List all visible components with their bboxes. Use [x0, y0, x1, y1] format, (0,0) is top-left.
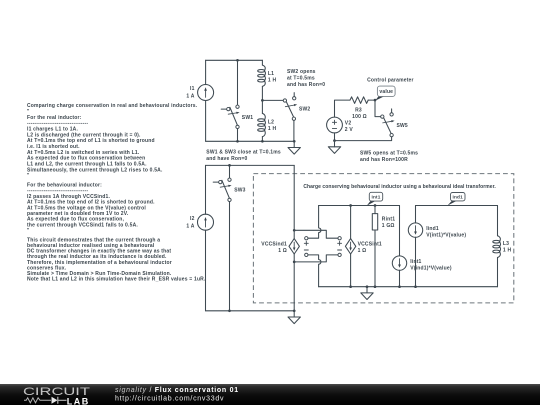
wire VCCSind1 top node to VCCSint1 + control [294, 230, 338, 238]
svg-text:SW2 opens: SW2 opens [287, 69, 316, 75]
svg-text:LAB: LAB [67, 396, 90, 405]
ground V2 [328, 141, 340, 154]
wire int1 net down to VCCSind1 + control (with hop) [308, 206, 321, 239]
resistor Rint1 [372, 206, 377, 287]
svg-text:ind1: ind1 [452, 194, 463, 199]
svg-text:SW3: SW3 [234, 188, 245, 194]
svg-text:I1: I1 [190, 86, 195, 92]
ground I2 circuit [288, 311, 300, 324]
junction rail / Iint1 [398, 285, 401, 288]
inductor L1 coil [258, 65, 266, 86]
svg-text:R3: R3 [355, 107, 362, 113]
svg-text:Note that L1 and L2 in this si: Note that L1 and L2 in this simulation h… [27, 277, 206, 283]
junction rail / Rint1 [374, 285, 377, 288]
wire Iind1 top [415, 206, 417, 224]
junction rail / Iind1 [414, 285, 417, 288]
wire VCCSind1 bottom (through dashed edge to bottom rail) [293, 262, 295, 311]
svg-text:1 H: 1 H [503, 248, 512, 254]
wire L2 bottom [261, 137, 263, 142]
annotation text block paragraph 1 [27, 103, 198, 179]
wire V2 top to R3 [335, 100, 351, 117]
wire top rail (I1 to L1) [206, 59, 263, 61]
svg-text:Charge conserving behavioural: Charge conserving behavioural inductor u… [303, 184, 496, 190]
wire R3 to node [368, 99, 375, 101]
junction rail / ground [366, 285, 369, 288]
junction bottom rail / SW1 [236, 140, 239, 143]
wire bottom rail (inside box) [319, 286, 498, 288]
VCCSind1 control terminal - [304, 250, 308, 257]
ground behavioural block [361, 287, 373, 300]
svg-text:SW2: SW2 [299, 107, 310, 113]
label Rint1 value [382, 216, 395, 229]
dependent source VCCSind1 diamond [289, 239, 299, 254]
wire Iint1 top [399, 206, 401, 256]
wire I2 top [205, 165, 207, 214]
label R3 value [352, 107, 367, 120]
current source I2 [198, 214, 214, 230]
svg-text:1 H: 1 H [268, 126, 277, 132]
wire top rail (I2 circuit) [206, 164, 295, 166]
label L3 value [503, 241, 512, 254]
wire L2 top stub [261, 100, 263, 113]
VCCSint1 control terminal - [338, 250, 342, 257]
wire value node to SW5 [375, 100, 381, 117]
svg-text:Iind1: Iind1 [426, 226, 439, 232]
wire VCCSint1 bottom [350, 254, 352, 287]
junction bottom rail / ground 2 [293, 309, 296, 312]
svg-text:1 Ω: 1 Ω [278, 248, 287, 254]
label L2 value [268, 119, 277, 131]
wire mid junction to SW2 [262, 99, 283, 101]
svg-text:SW5 opens at T=0.5ms: SW5 opens at T=0.5ms [360, 150, 418, 156]
wire Iint1 bottom [399, 270, 401, 286]
label VCCSint1 value [358, 242, 382, 255]
net flag int1 [367, 192, 383, 205]
wire VCCSind1 top stub [293, 230, 295, 238]
net flag value [375, 86, 395, 101]
wire ind1 net [416, 205, 498, 207]
resistor R3 [350, 97, 368, 104]
label SW1/SW3 behaviour note [206, 149, 281, 162]
wire VCCSind1 bottom node to VCCSint1 - control [294, 255, 338, 262]
svg-text:value: value [379, 89, 393, 95]
VCCSind1 control terminal + [304, 237, 308, 246]
junction top rail / SW3 [228, 164, 231, 167]
junction int1 / VCCSint1 top [349, 204, 352, 207]
junction top rail / SW1 [236, 59, 239, 62]
wire bottom rail (left circuit) [206, 140, 295, 142]
svg-text:signality / Flux conservation: signality / Flux conservation 01 [115, 387, 239, 394]
label SW2 behaviour note [287, 69, 325, 88]
svg-text:and has Ron=100R: and has Ron=100R [360, 157, 408, 163]
dashed boundary: behavioural inductor block [253, 174, 513, 303]
svg-text:2 V: 2 V [345, 127, 354, 133]
junction bottom rail / ground [293, 140, 296, 143]
VCCSint1 control terminal + [338, 237, 342, 246]
wire SW2 bottom [293, 120, 295, 141]
label L1 value [268, 71, 277, 84]
wire left branch top (rail to I1) [205, 60, 207, 84]
junction rail / VCCSint1 [349, 285, 352, 288]
svg-text:I2: I2 [190, 216, 195, 222]
current source Iint1 [392, 256, 406, 270]
svg-text:V(int1)*V(value): V(int1)*V(value) [426, 233, 466, 239]
label Iint1 value [410, 259, 452, 272]
junction V2 bottom / ground [333, 139, 336, 142]
switch SW2 [283, 93, 297, 121]
inductor L3 coil [493, 236, 501, 258]
wire left branch bottom (I1 to bottom rail) [205, 101, 207, 142]
label I2 value [186, 216, 194, 229]
footer bar [0, 384, 540, 405]
inductor L2 coil [258, 113, 266, 136]
svg-text:1 Ω: 1 Ω [358, 248, 367, 254]
svg-text:": " [27, 173, 30, 179]
svg-text:L1: L1 [268, 71, 274, 77]
wire L1 to mid junction [261, 86, 263, 100]
wire int1 net [319, 205, 400, 207]
wire VCCSind1 top (from top rail through dashed edge) [293, 165, 295, 230]
svg-text:at T=0.5ms: at T=0.5ms [287, 76, 315, 82]
wire SW1 bottom [237, 129, 239, 142]
wire bottom rail (I2 circuit) [206, 310, 295, 312]
junction L1/L2/SW2 node [261, 99, 264, 102]
dependent source VCCSint1 diamond [345, 239, 355, 254]
junction VCCSind1 bottom node [293, 261, 296, 264]
annotation text block paragraph 3 [27, 237, 206, 282]
annotation text block paragraph 2 [27, 183, 155, 235]
wire VCCSint1 top [350, 206, 352, 239]
svg-text:SW5: SW5 [397, 123, 408, 129]
net flag ind1 [447, 193, 465, 206]
label SW5 behaviour note [360, 150, 418, 163]
svg-text:1 GΩ: 1 GΩ [382, 223, 395, 229]
svg-text:VCCSind1: VCCSind1 [261, 242, 287, 248]
svg-text:Comparing charge conservation: Comparing charge conservation in real an… [27, 103, 198, 109]
svg-text:int1: int1 [371, 194, 380, 199]
wire bottom rail (V2 to SW5) [335, 137, 392, 141]
label V2 value [345, 120, 354, 132]
svg-text:V(ind1)*V(value): V(ind1)*V(value) [410, 266, 452, 272]
switch SW5 [381, 109, 395, 137]
svg-text:Rint1: Rint1 [382, 216, 395, 222]
svg-text:VCCSint1: VCCSint1 [358, 242, 382, 248]
current source I1 [198, 85, 214, 101]
svg-text:SW1 & SW3 close at T=0.1ms: SW1 & SW3 close at T=0.1ms [206, 149, 281, 155]
wire L1 top stub [261, 60, 263, 65]
wire SW3 bottom [229, 202, 231, 311]
switch SW3 [213, 178, 231, 202]
junction value node [374, 99, 377, 102]
junction bottom rail / L2 [261, 140, 264, 143]
wire L3 top [497, 206, 499, 236]
svg-text:SW1: SW1 [242, 115, 253, 121]
svg-text:http://circuitlab.com/cnv33dv: http://circuitlab.com/cnv33dv [115, 395, 224, 402]
svg-text:the current through VCCSind1 f: the current through VCCSind1 falls to 0.… [27, 222, 138, 228]
svg-text:": " [27, 228, 30, 234]
wire V2 bottom [334, 133, 336, 141]
junction bottom rail / SW3 [228, 309, 231, 312]
wire VCCSind1 bottom stub [293, 254, 295, 262]
svg-text:L3: L3 [503, 241, 509, 247]
wire L3 bottom [497, 258, 499, 287]
svg-text:1 A: 1 A [186, 223, 194, 229]
junction int1 / Rint1 top [374, 204, 377, 207]
label Iind1 value [426, 226, 466, 239]
svg-text:1 H: 1 H [268, 77, 277, 83]
label I1 value [186, 86, 194, 99]
svg-text:1 A: 1 A [186, 94, 194, 100]
wire I2 bottom [205, 230, 207, 311]
svg-text:and have Ron=0: and have Ron=0 [206, 156, 247, 162]
wire SW3 top [229, 165, 231, 178]
svg-text:and has Ron=0: and has Ron=0 [287, 82, 325, 88]
svg-text:100 Ω: 100 Ω [352, 114, 367, 120]
svg-text:L2: L2 [268, 119, 274, 125]
svg-text:Simultaneously, the current th: Simultaneously, the current through L2 r… [27, 167, 163, 173]
wire Iind1 bottom [415, 237, 417, 286]
current source Iind1 [408, 223, 422, 237]
ground left circuit [288, 141, 300, 154]
svg-text:V2: V2 [345, 120, 352, 126]
svg-text:Control parameter: Control parameter [367, 77, 414, 83]
CircuitLab logo [23, 386, 91, 405]
voltage source V2 [327, 117, 343, 133]
junction VCCSind1 top node [293, 229, 296, 232]
wire SW1 top [237, 60, 239, 105]
label VCCSind1 value [261, 242, 287, 255]
wire VCCSind1 - control down to bottom rail (with hop) [308, 255, 321, 287]
switch SW1 [221, 105, 239, 129]
